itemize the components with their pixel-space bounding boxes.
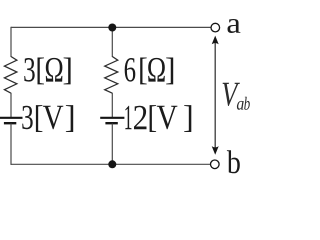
wire left branch middle (10, 93, 12, 117)
terminal b (211, 160, 220, 169)
battery V1 3V short plate (4, 122, 16, 124)
battery V1 3V long plate (0, 117, 23, 119)
wire left branch upper (10, 27, 12, 57)
voltage arrow Vab shaft (214, 43, 216, 148)
battery V2 12V long plate (100, 117, 124, 119)
label 3 ohm (24, 58, 70, 85)
resistor R2 6 ohm (105, 57, 118, 94)
node label a (228, 19, 241, 33)
battery V2 12V short plate (105, 122, 117, 124)
wire top rail (11, 26, 212, 28)
label 12V (125, 105, 191, 132)
terminal a (211, 23, 220, 32)
resistor R1 3 ohm (4, 57, 17, 94)
wire bottom rail (11, 163, 211, 165)
junction dot bottom (108, 160, 116, 168)
label Vab (223, 83, 250, 110)
label 6 ohm (125, 58, 174, 85)
wire middle branch middle (111, 93, 113, 117)
arrowhead down (212, 146, 219, 155)
arrowhead up (212, 36, 219, 45)
label 3V (22, 105, 73, 132)
wire middle branch upper (111, 27, 113, 57)
junction dot top (108, 24, 116, 32)
wire middle branch lower (111, 124, 113, 165)
wire left branch lower (10, 124, 12, 165)
node label b (227, 150, 240, 173)
